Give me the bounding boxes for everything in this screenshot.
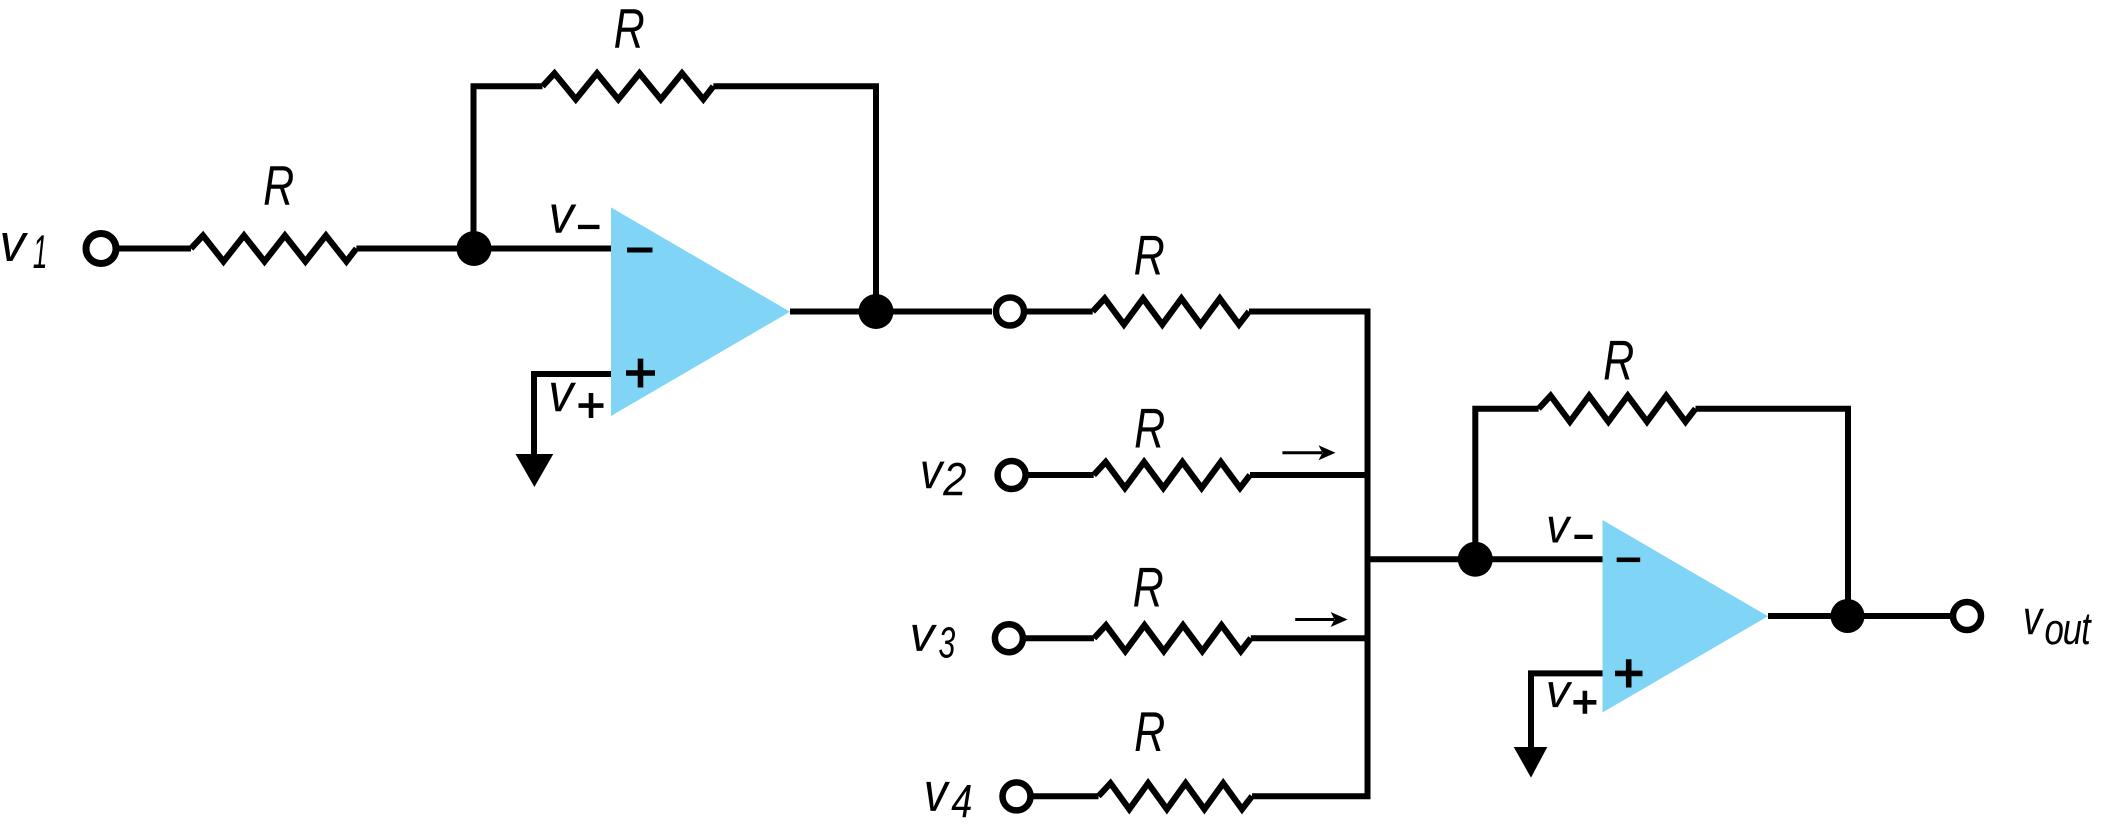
node v3 terminal [995, 624, 1023, 652]
wire U1 non-inverting input to ground [534, 374, 611, 456]
label R of R4 [1136, 409, 1164, 448]
wire feedback right: R2 right and down to U1 output node [713, 86, 876, 311]
label v4 [926, 782, 950, 811]
resistor R5 (v3 input, value R) [1094, 625, 1251, 651]
resistor R7 (feedback of U2, value R) [1539, 396, 1696, 422]
wire U2 output to vout terminal [1768, 613, 1950, 619]
label vout [2025, 609, 2044, 635]
label v+ at U1 non-inverting input [551, 383, 576, 412]
node vout open terminal [1953, 602, 1981, 630]
wire mid terminal to R3 [1027, 309, 1093, 315]
wire U2 non-inverting input to ground [1531, 673, 1603, 748]
label v+ at U2 non-inverting input [1548, 682, 1572, 707]
wire v3 terminal to R5 [1026, 635, 1094, 641]
wire node B up and right to R7 [1475, 409, 1538, 560]
node mid open terminal [996, 298, 1024, 326]
wire R3 to bus and bus down to v4 row [1249, 312, 1368, 797]
wire feedback left: node A up and right to R2 [474, 86, 543, 248]
resistor R1 (v1 input, value R) [191, 236, 356, 262]
ground arrow of U1 [516, 454, 554, 487]
label R of R2 [615, 9, 643, 48]
wire R1 to op-amp U1 inverting input (through node A) [356, 246, 611, 252]
wire R5 to bus [1251, 635, 1368, 641]
resistor R2 (feedback of U1, value R) [543, 73, 714, 99]
node v2 terminal [998, 461, 1026, 489]
current arrow on v2 branch [1282, 451, 1322, 454]
U1 plus sign (non-inverting input marker) [626, 359, 655, 388]
node A junction dot (inverting input node) [457, 231, 492, 266]
label R of R3 [1135, 236, 1163, 275]
label v3 [912, 625, 937, 651]
wire R7 right and down to U2 output node [1696, 409, 1849, 616]
label v- at U1 inverting input [551, 205, 576, 233]
node B junction dot (U2 inverting input node) [1458, 542, 1493, 577]
label R of R5 [1134, 568, 1162, 607]
op-amp U1 body [611, 207, 790, 416]
current arrow on v3 branch [1295, 618, 1334, 621]
U2 minus sign (inverting input marker) [1617, 558, 1641, 563]
op-amp U2 body [1603, 520, 1769, 713]
wire R4 to bus [1250, 472, 1368, 478]
label v1 [2, 233, 28, 261]
wire bus to U2 inverting input [1368, 556, 1603, 562]
node U1 output junction dot [859, 294, 894, 329]
ground arrow of U2 [1514, 747, 1548, 778]
resistor R6 (v4 input, value R) [1099, 783, 1253, 809]
node v4 terminal [1003, 782, 1031, 810]
wire v4 terminal to R6 [1033, 793, 1098, 799]
wire v1 terminal to R1 [119, 246, 192, 252]
resistor R4 (v2 input, value R) [1094, 462, 1250, 488]
node U2 output junction dot [1831, 599, 1865, 633]
label R of R1 [265, 166, 293, 205]
resistor R3 (first op-amp output to summing bus, value R) [1093, 299, 1249, 325]
label v2 [922, 462, 944, 489]
wire U1 output to mid terminal [790, 309, 992, 315]
label R of R6 [1136, 712, 1164, 751]
label v- at U2 inverting input [1549, 517, 1572, 543]
U1 minus sign (inverting input marker) [627, 248, 653, 253]
label R of R7 [1605, 341, 1633, 380]
wire v2 terminal to R4 [1029, 472, 1094, 478]
node v1 terminal [86, 234, 116, 264]
U2 plus sign (non-inverting input marker) [1615, 659, 1643, 687]
